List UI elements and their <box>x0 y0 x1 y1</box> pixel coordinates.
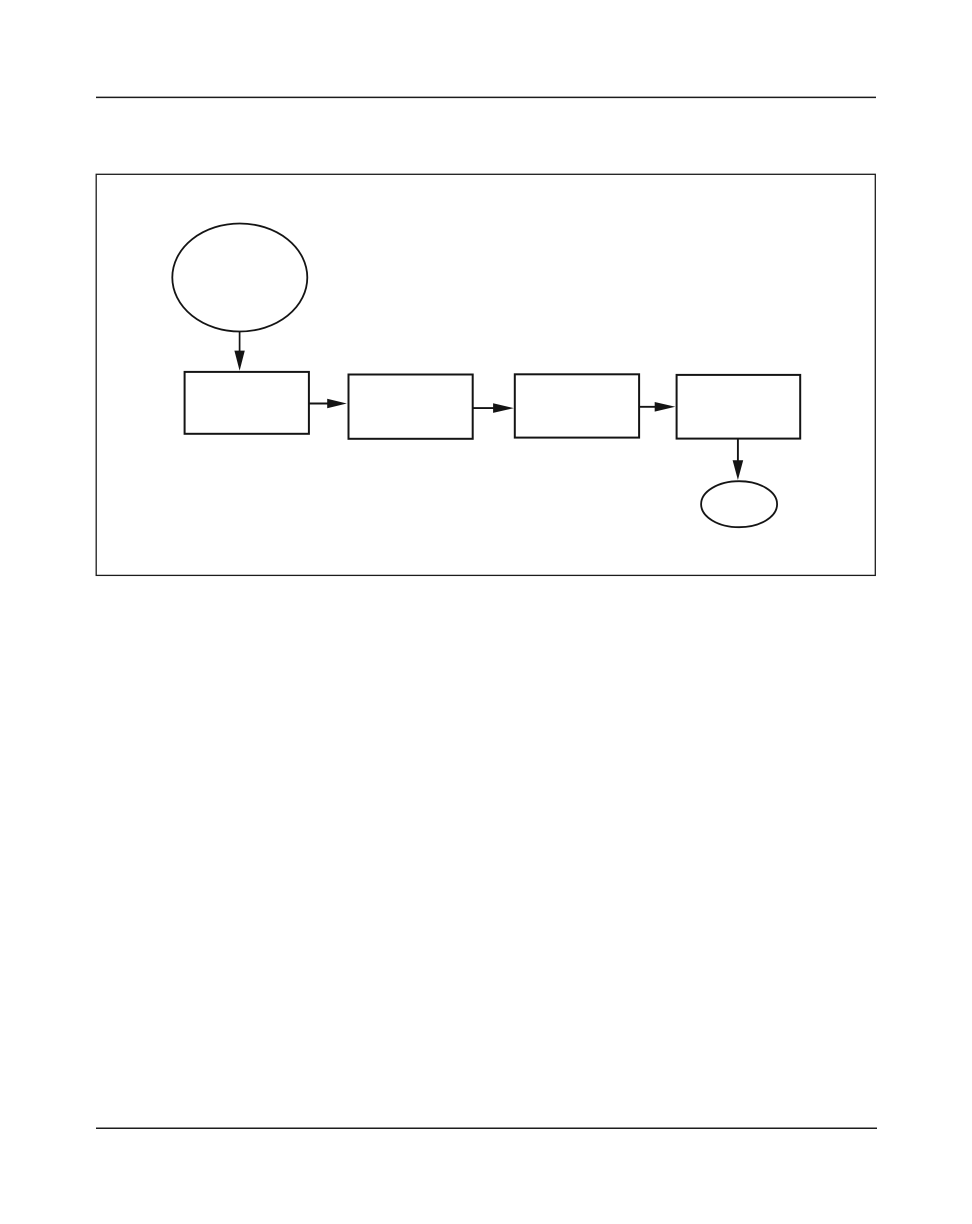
flow box 2 <box>349 375 473 439</box>
header rule <box>96 96 876 98</box>
arrow from box 2 to box 3 <box>473 403 514 413</box>
arrow from box 1 to box 2 <box>309 399 347 409</box>
arrow from box 3 to box 4 <box>639 402 675 412</box>
arrow from start ellipse to box 1 <box>234 332 244 371</box>
flow box 4 <box>677 375 801 439</box>
footer rule <box>96 1127 877 1129</box>
flow box 1 <box>185 372 309 434</box>
flow box 3 <box>515 374 639 437</box>
arrow from box 4 to end ellipse <box>733 439 744 480</box>
end ellipse <box>701 481 777 527</box>
figure frame <box>96 174 875 575</box>
start ellipse <box>172 224 307 332</box>
